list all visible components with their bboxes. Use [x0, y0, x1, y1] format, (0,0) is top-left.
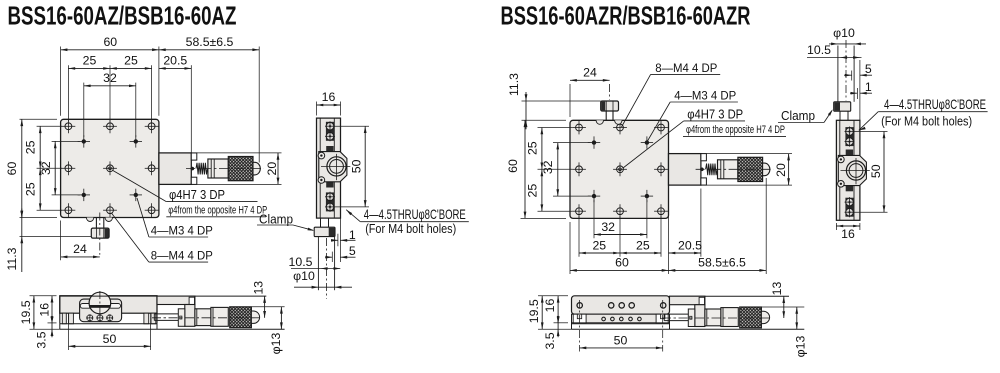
svg-text:BSS16-60AZR/BSB16-60AZR: BSS16-60AZR/BSB16-60AZR	[501, 1, 751, 31]
svg-text:φ4from the opposite H7 4 DP: φ4from the opposite H7 4 DP	[168, 205, 267, 217]
side view inner lines	[319, 118, 321, 218]
svg-text:φ4H7 3 DP: φ4H7 3 DP	[169, 188, 225, 202]
boss corner screw lower	[318, 177, 325, 184]
side bottom screws R	[846, 208, 854, 216]
ground line R	[572, 328, 805, 330]
svg-text:5: 5	[865, 62, 872, 76]
ext lines top	[60, 47, 62, 116]
rod centerline	[326, 238, 328, 299]
bottom rail R	[572, 323, 670, 325]
micrometer bracket (front)	[159, 153, 191, 185]
clamp rod lines	[317, 237, 319, 291]
svg-text:Clamp: Clamp	[259, 212, 293, 226]
dim phi10 side	[294, 286, 352, 288]
micrometer centerline (front) R	[696, 168, 774, 170]
svg-text:Clamp: Clamp	[781, 109, 815, 123]
side clamp stem	[320, 218, 322, 227]
svg-text:20: 20	[265, 162, 279, 176]
dim 19.5	[30, 295, 57, 297]
micrometer knob boss (side)	[319, 152, 347, 182]
svg-text:1: 1	[865, 80, 872, 94]
left ext lines	[20, 118, 58, 120]
bottom spindle rod R	[664, 313, 695, 315]
bottom rail	[60, 323, 157, 325]
svg-text:16: 16	[543, 299, 557, 313]
svg-text:16: 16	[841, 227, 855, 241]
dim 3.5 R	[557, 316, 559, 338]
boss slot dark lower	[326, 182, 333, 188]
dim 19.5 R	[538, 295, 568, 297]
spring	[196, 163, 208, 175]
dim 24 R	[569, 84, 571, 117]
side clamp knob	[314, 227, 335, 236]
bottom centerline R	[662, 317, 770, 319]
leader 8-M4	[112, 214, 149, 263]
dim 16 bottom	[48, 322, 57, 324]
svg-text:60: 60	[615, 256, 629, 270]
bottom band R	[572, 314, 670, 323]
label phi4 from opposite	[166, 216, 266, 218]
micrometer end cap (front)	[253, 162, 260, 175]
dim 20.5 R	[669, 252, 701, 254]
leader phi4H7	[113, 170, 167, 201]
dim 25 lower-left R	[541, 169, 543, 211]
spring R	[706, 164, 718, 176]
front view top plate	[61, 119, 159, 217]
svg-text:3.5: 3.5	[543, 332, 557, 349]
dim 60 top	[61, 49, 159, 51]
svg-text:60: 60	[506, 159, 520, 173]
dim 50 bottom R	[580, 347, 663, 349]
bottom phillips screws	[87, 315, 93, 321]
screw channel dark bottom R	[845, 198, 853, 217]
dim 24	[60, 221, 62, 261]
svg-text:25: 25	[525, 184, 539, 198]
8-M4 tapped holes	[62, 119, 159, 217]
dim 11.3 R	[522, 100, 601, 102]
dim 1 side	[337, 234, 339, 246]
bottom knurl	[230, 307, 252, 328]
svg-text:8—M4 4 DP: 8—M4 4 DP	[151, 248, 213, 262]
side clamp stem R	[839, 111, 841, 120]
bottom cap	[251, 311, 259, 323]
bottom centerline	[152, 317, 260, 319]
boss corner screw lower R	[838, 181, 845, 188]
side bottom screws	[326, 193, 334, 201]
spindle tip dot	[191, 167, 195, 171]
boss slot dark upper	[326, 146, 333, 151]
svg-text:4—M3 4 DP: 4—M3 4 DP	[151, 223, 213, 237]
ground line	[60, 328, 285, 330]
dim 5 side	[331, 252, 333, 262]
dim 32 bottom R	[594, 234, 647, 236]
svg-text:11.3: 11.3	[5, 247, 19, 270]
dim 60 left	[21, 119, 23, 217]
boss corner screw upper R	[838, 156, 845, 163]
bottom thimble	[211, 307, 228, 326]
band holes R	[602, 317, 606, 321]
svg-text:25: 25	[525, 141, 539, 155]
svg-text:25: 25	[24, 140, 38, 154]
clamp screw head (bottom view)	[89, 292, 111, 314]
svg-text:13: 13	[770, 282, 784, 296]
svg-text:8—M4 4 DP: 8—M4 4 DP	[655, 61, 717, 75]
dim 50 side R	[854, 131, 888, 133]
svg-text:25: 25	[83, 53, 97, 67]
dim 16 side top	[316, 102, 318, 116]
micrometer end cap (front) R	[763, 163, 770, 176]
svg-text:25: 25	[636, 238, 650, 252]
dim 20 micrometer R	[701, 153, 792, 155]
bottom view feet band	[62, 313, 66, 324]
svg-text:BSS16-60AZ/BSB16-60AZ: BSS16-60AZ/BSB16-60AZ	[8, 1, 237, 31]
rod centerline R	[845, 40, 847, 100]
micrometer knob circles (side)	[327, 157, 346, 176]
clamp rod lines R	[837, 46, 839, 102]
bottom ext lines R	[569, 222, 571, 274]
dim 13 bottom R	[783, 296, 785, 318]
clamp centerline	[99, 213, 101, 255]
svg-text:24: 24	[583, 65, 597, 79]
side clamp knob R	[834, 102, 851, 111]
dim 5 R	[851, 71, 853, 81]
svg-text:4—4.5THRUφ8C'BORE: 4—4.5THRUφ8C'BORE	[364, 207, 466, 222]
svg-text:20: 20	[774, 163, 788, 177]
svg-text:25: 25	[592, 238, 606, 252]
svg-text:19.5: 19.5	[527, 299, 541, 323]
side top screws	[326, 122, 334, 130]
dim 25 upper-left	[39, 126, 41, 168]
side view body	[317, 118, 341, 218]
svg-text:φ13: φ13	[269, 333, 283, 355]
leader phi4H7 R	[623, 121, 684, 168]
micrometer knob boss (side) R	[838, 155, 866, 185]
front view top plate R	[570, 120, 669, 218]
dim 50 side	[335, 125, 370, 127]
bottom slide plate	[80, 299, 122, 322]
leader 8-M4 R	[622, 74, 651, 127]
svg-text:50: 50	[614, 333, 628, 347]
spindle lock notches	[191, 153, 197, 160]
svg-text:58.5±6.5: 58.5±6.5	[186, 35, 234, 49]
dim 50 bottom	[68, 314, 70, 351]
micrometer thimble (front) R	[718, 160, 738, 179]
svg-text:φ4H7 3 DP: φ4H7 3 DP	[687, 107, 743, 121]
dim 1 R	[856, 88, 858, 99]
dim 32 left R	[557, 143, 559, 197]
screw channel dark top R	[845, 127, 853, 146]
spindle lock notches R	[701, 154, 707, 161]
dim 16 bottom R	[554, 322, 569, 324]
svg-text:φ10: φ10	[833, 26, 855, 40]
svg-text:10.5: 10.5	[289, 255, 313, 269]
dim 25 bottom-right R	[620, 252, 661, 254]
svg-text:32: 32	[541, 160, 555, 174]
svg-text:φ13: φ13	[794, 336, 808, 358]
svg-text:φ10: φ10	[293, 269, 315, 283]
svg-text:16: 16	[322, 90, 336, 104]
body right edge ext R	[859, 60, 861, 120]
svg-text:1: 1	[349, 228, 356, 242]
svg-text:20.5: 20.5	[678, 238, 702, 252]
dim phi13 bottom R	[762, 306, 804, 308]
svg-text:φ4from the opposite H7 4 DP: φ4from the opposite H7 4 DP	[686, 124, 785, 136]
dim phi10 R	[829, 43, 866, 45]
micrometer bracket (front) R	[669, 154, 701, 186]
dim 58.5 R	[669, 269, 767, 271]
plate holes R	[577, 303, 582, 308]
side top screws R	[846, 138, 854, 146]
svg-text:25: 25	[124, 53, 138, 67]
spindle tip dot R	[700, 168, 704, 172]
svg-text:25: 25	[24, 182, 38, 196]
dim 11.3	[21, 209, 23, 246]
dim phi13 bottom	[252, 306, 285, 308]
boss slot dark lower R	[846, 186, 853, 191]
8-M4 tapped holes R	[572, 121, 668, 219]
dim 13 bottom	[264, 296, 266, 318]
svg-text:4—4.5THRUφ8C'BORE: 4—4.5THRUφ8C'BORE	[884, 97, 986, 112]
dim 25 left	[68, 67, 110, 69]
slide slots	[80, 304, 92, 309]
center hole phi4H7	[107, 165, 114, 172]
Z clamp knob (top) R	[596, 101, 622, 124]
bottom cap R	[761, 311, 769, 323]
svg-text:5: 5	[349, 244, 356, 258]
micrometer knob circles (side) R	[846, 161, 865, 180]
micrometer centerline (front)	[186, 168, 264, 170]
Z clamp knob (bottom)	[86, 218, 112, 239]
svg-text:50: 50	[103, 332, 117, 346]
side view body R	[836, 120, 860, 220]
dim 10.5 R	[807, 57, 862, 59]
leader 4-4.5 thru R	[859, 127, 866, 131]
dim 25 bottom-left R	[579, 252, 620, 254]
side view inner lines R	[839, 120, 841, 220]
dim 32 left	[54, 141, 56, 195]
svg-text:20.5: 20.5	[163, 53, 187, 67]
boss corner screw upper	[318, 152, 325, 159]
4-M3 holes	[78, 135, 142, 201]
body right edge ext	[339, 218, 341, 262]
dim 20 micrometer	[191, 152, 281, 154]
clamp centerline R	[609, 84, 611, 100]
svg-text:(For M4 bolt holes): (For M4 bolt holes)	[365, 221, 456, 236]
bottom mic bracket R	[670, 296, 705, 305]
svg-text:13: 13	[252, 281, 266, 295]
svg-text:50: 50	[350, 159, 364, 173]
dim 25 lower-left	[39, 168, 41, 210]
leader 4-M3	[137, 198, 149, 237]
boss slot dark upper R	[846, 150, 853, 156]
dim 60 bottom R	[570, 269, 669, 271]
left ext lines R	[521, 217, 567, 219]
svg-text:10.5: 10.5	[807, 43, 831, 57]
svg-text:3.5: 3.5	[35, 331, 49, 348]
bottom clamp bar R	[688, 309, 695, 327]
leader 4-M3 R	[648, 102, 671, 141]
svg-text:19.5: 19.5	[19, 300, 33, 324]
svg-text:11.3: 11.3	[507, 73, 521, 96]
dim 58.5+-6.5	[159, 49, 259, 51]
dim 25 right	[110, 67, 152, 69]
svg-text:32: 32	[103, 71, 117, 85]
label phi4 from opposite R	[683, 135, 786, 137]
dim 25 upper-left R	[541, 128, 543, 170]
bottom spindle rod	[154, 313, 185, 315]
micrometer knurled knob (front) R	[738, 157, 763, 181]
dim 3.5	[48, 322, 57, 324]
micrometer knurled knob (front)	[228, 157, 253, 181]
center hole phi4H7 R	[617, 166, 624, 173]
bottom mic bracket	[157, 296, 195, 304]
svg-text:16: 16	[38, 303, 52, 317]
svg-text:24: 24	[73, 242, 87, 256]
bottom sleeve R	[705, 309, 721, 326]
svg-text:60: 60	[5, 162, 19, 176]
svg-text:60: 60	[103, 35, 117, 49]
screw channel dark top	[326, 122, 334, 141]
bottom view body	[60, 296, 157, 314]
svg-text:(For M4 bolt holes): (For M4 bolt holes)	[881, 114, 972, 129]
bottom clamp bar	[178, 309, 185, 327]
4-M3 holes R	[588, 136, 653, 202]
dim 16 side R	[835, 223, 837, 230]
svg-text:32: 32	[601, 220, 615, 234]
svg-text:4—M3 4 DP: 4—M3 4 DP	[674, 88, 736, 102]
dim 60 left R	[524, 120, 526, 218]
leader 4-4.5 thru left	[346, 210, 352, 216]
svg-text:50: 50	[869, 164, 883, 178]
bottom mic top line R	[670, 295, 790, 297]
bottom mic top line / 13 ext	[60, 295, 266, 297]
micrometer thimble (front)	[208, 159, 228, 178]
svg-text:58.5±6.5: 58.5±6.5	[698, 256, 746, 270]
dim 20.5	[159, 67, 191, 69]
bottom thimble R	[721, 308, 738, 327]
screw channel dark bottom	[326, 192, 334, 211]
dim 10.5 side	[291, 268, 340, 270]
bottom view plate R	[572, 296, 670, 314]
bottom 50 centerlines R	[579, 300, 581, 352]
bottom knurl R	[740, 307, 762, 328]
dim 32 top	[84, 85, 136, 87]
bottom sleeve	[195, 309, 211, 326]
